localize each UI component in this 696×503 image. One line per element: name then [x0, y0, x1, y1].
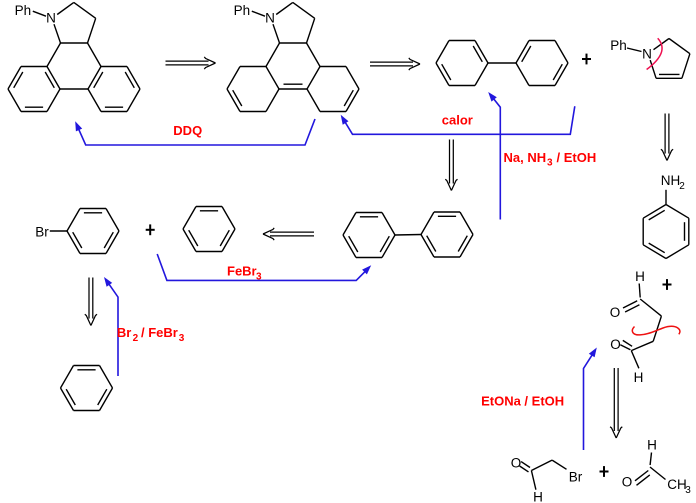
svg-text:H: H	[635, 269, 645, 284]
svg-text:/ EtOH: / EtOH	[557, 150, 597, 165]
svg-text:Na, NH: Na, NH	[504, 150, 547, 165]
svg-text:Ph: Ph	[234, 3, 251, 18]
svg-text:Br: Br	[117, 325, 131, 340]
svg-text:N: N	[46, 10, 56, 25]
svg-text:O: O	[511, 456, 522, 471]
svg-text:3: 3	[547, 158, 553, 169]
svg-text:O: O	[610, 337, 621, 352]
svg-text:3: 3	[179, 333, 185, 344]
svg-text:Br: Br	[569, 470, 583, 485]
svg-text:3: 3	[685, 485, 691, 496]
svg-text:EtONa / EtOH: EtONa / EtOH	[481, 393, 564, 408]
svg-text:DDQ: DDQ	[173, 123, 202, 138]
svg-text:CH: CH	[667, 477, 687, 492]
svg-text:calor: calor	[442, 113, 473, 128]
svg-text:3: 3	[256, 272, 262, 283]
svg-text:/ FeBr: / FeBr	[141, 325, 178, 340]
svg-text:O: O	[622, 475, 633, 490]
svg-text:Ph: Ph	[15, 3, 32, 18]
svg-text:N: N	[265, 10, 275, 25]
svg-text:O: O	[610, 305, 621, 320]
svg-text:Ph: Ph	[610, 38, 627, 53]
svg-text:FeBr: FeBr	[227, 264, 257, 279]
svg-text:H: H	[647, 438, 657, 453]
svg-text:NH: NH	[661, 173, 681, 188]
svg-text:2: 2	[133, 333, 139, 344]
svg-text:N: N	[642, 47, 652, 62]
svg-text:Br: Br	[35, 225, 49, 240]
svg-text:2: 2	[679, 181, 685, 192]
svg-text:H: H	[533, 490, 543, 503]
svg-text:H: H	[634, 370, 644, 385]
